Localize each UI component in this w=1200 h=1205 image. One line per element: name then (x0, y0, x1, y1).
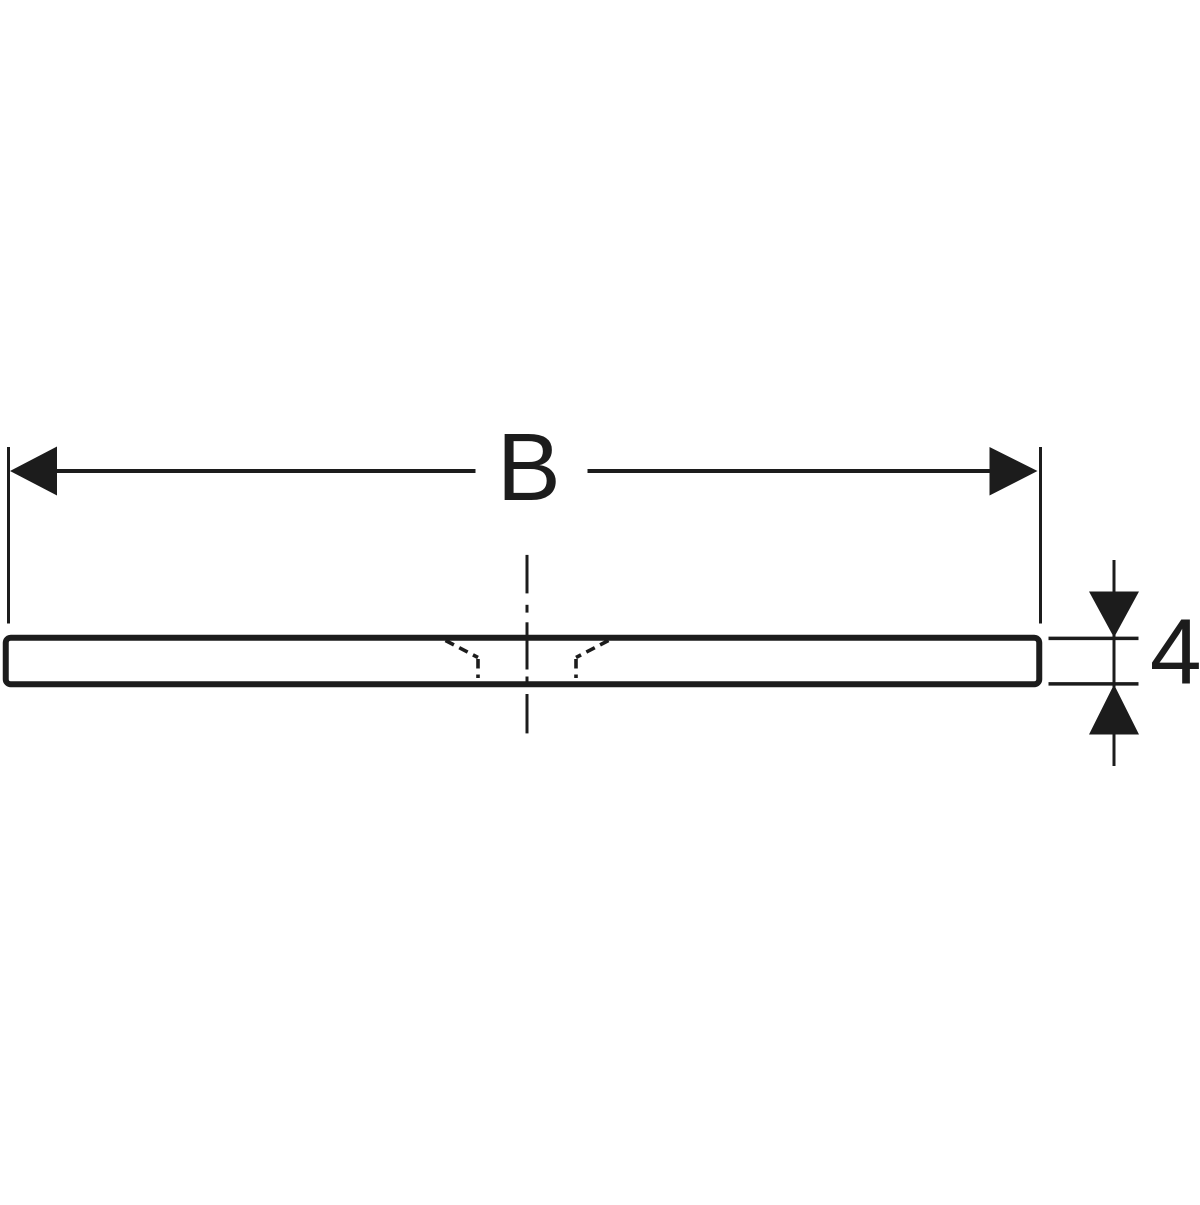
vertical centre line (dash-dot) (526, 555, 529, 734)
svg-text:B: B (497, 414, 561, 521)
hidden drain recess, right vertical dashed line (574, 659, 578, 678)
dimension B: left arrowhead (10, 447, 57, 496)
shower tray profile (rounded rectangle) (6, 638, 1040, 685)
dimension B: line left segment (50, 469, 476, 473)
dimension 4: bottom tick line (1049, 682, 1139, 686)
dimension 4: downward arrowhead (1089, 592, 1139, 638)
hidden drain recess, right diagonal dashed line (576, 641, 609, 658)
svg-text:4: 4 (1150, 600, 1200, 704)
dimension 4: upward arrowhead (1089, 685, 1139, 735)
dimension 4: vertical line (1113, 560, 1116, 766)
hidden drain recess, left vertical dashed line (476, 659, 480, 678)
dimension B: right extension line (1039, 447, 1042, 624)
dimension B: line right segment (588, 469, 996, 473)
dimension B: left extension line (7, 447, 10, 624)
dimension B: right arrowhead (990, 447, 1038, 496)
dimension 4: top tick line (1049, 637, 1139, 641)
hidden drain recess, left diagonal dashed line (446, 641, 479, 658)
